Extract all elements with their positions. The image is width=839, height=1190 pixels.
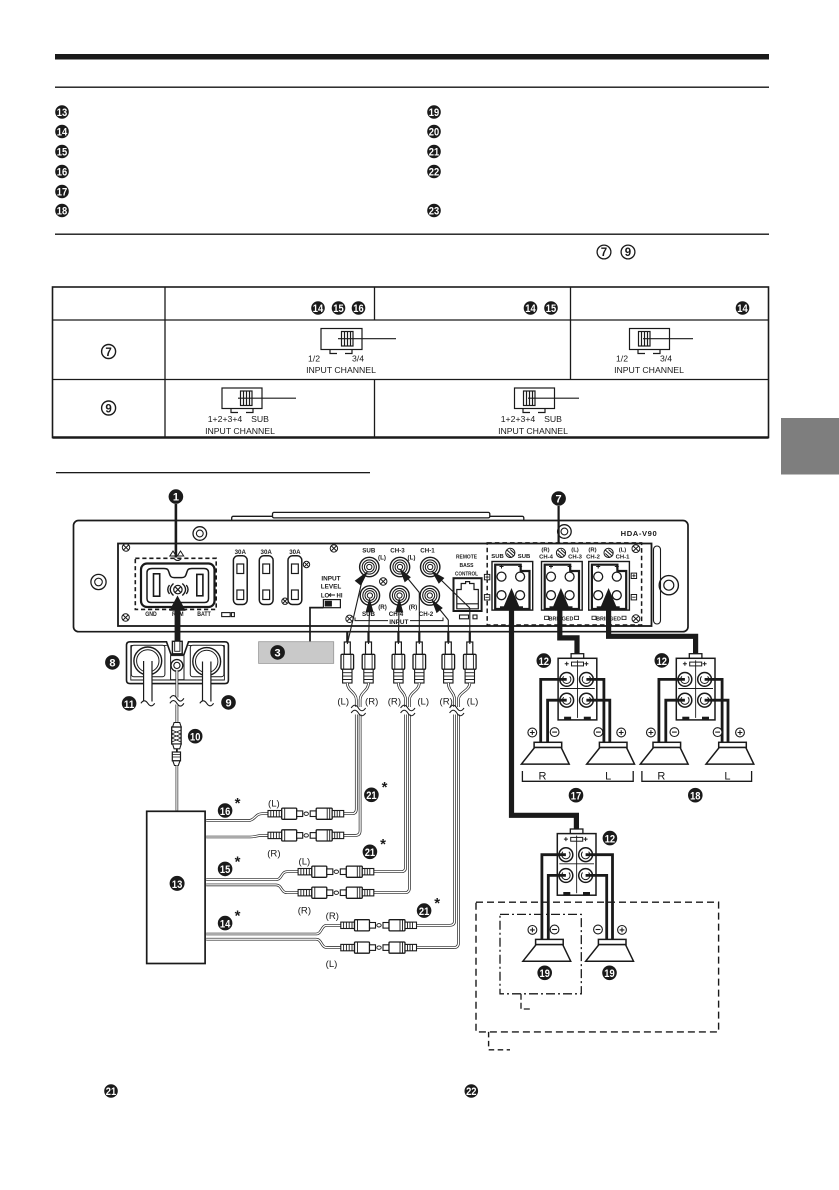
svg-text:INPUT CHANNEL: INPUT CHANNEL <box>498 426 568 436</box>
svg-text:14: 14 <box>525 303 535 315</box>
svg-text:(L): (L) <box>619 548 627 554</box>
power terminal block <box>141 564 215 608</box>
RCA plug below amp (L) ch3 <box>413 632 426 683</box>
RCA plug below amp (R) sub <box>362 632 375 683</box>
svg-text:9: 9 <box>225 697 231 709</box>
svg-text:SUB: SUB <box>544 414 562 424</box>
svg-text:(L): (L) <box>571 548 579 554</box>
table header circle 15 <box>332 301 346 315</box>
svg-text:REMOTE: REMOTE <box>456 555 477 561</box>
svg-text:(R): (R) <box>267 849 280 860</box>
front speaker wires <box>541 679 610 742</box>
svg-text:14: 14 <box>57 127 67 139</box>
thick cable CH-2/1 out <box>609 606 696 658</box>
RCA jack CH-1 <box>421 557 440 576</box>
svg-text:*: * <box>434 895 440 912</box>
dashed box corner screws <box>632 545 640 553</box>
fuse holder 10 <box>172 723 182 749</box>
sub system dashed box <box>476 902 719 1032</box>
label circle 18 <box>688 788 703 803</box>
RCA plug below amp (L) ch1 <box>464 632 477 683</box>
table header circle 16 <box>352 301 366 315</box>
svg-text:17: 17 <box>571 791 581 803</box>
svg-text:15: 15 <box>220 864 230 876</box>
svg-text:CH-3: CH-3 <box>568 555 582 561</box>
GND cable <box>141 661 155 706</box>
svg-text:(L): (L) <box>268 799 280 810</box>
svg-text:12: 12 <box>605 833 615 845</box>
svg-text:CH-1: CH-1 <box>616 555 630 561</box>
top thin rule <box>55 87 769 88</box>
top thick rule <box>55 54 769 60</box>
panel screw c <box>330 545 337 552</box>
list item circle 14 <box>55 125 69 139</box>
plus minus marks on dashed box <box>484 573 636 600</box>
svg-text:(R): (R) <box>388 697 401 708</box>
amplifier connector panel <box>118 544 652 627</box>
svg-text:L: L <box>605 771 611 783</box>
svg-text:*: * <box>235 795 241 812</box>
svg-text:16: 16 <box>353 303 363 315</box>
list item circle 21 <box>427 145 441 159</box>
BATT ring terminal <box>193 648 221 676</box>
power terminal inner outline <box>147 569 209 603</box>
svg-text:(R): (R) <box>365 697 378 708</box>
terminal block CH-2/CH-1 <box>589 562 630 611</box>
svg-text:LO: LO <box>321 593 330 599</box>
rear L polarity <box>713 728 722 737</box>
switch A row7 col2 (knob right) <box>321 329 396 354</box>
svg-text:30A: 30A <box>289 549 301 556</box>
RCA pair 15 L <box>298 866 374 877</box>
svg-text:18: 18 <box>57 206 67 218</box>
bundle 1 wires <box>343 700 356 814</box>
pointer arrow plug2 to SUB R jack <box>366 600 373 645</box>
svg-text:21: 21 <box>366 790 376 802</box>
label circle 19 right <box>602 966 617 981</box>
REM clamp wings <box>168 584 188 596</box>
svg-text:13: 13 <box>57 107 67 119</box>
sub L speaker <box>523 939 571 961</box>
svg-text:*: * <box>382 779 388 796</box>
svg-text:BATT: BATT <box>197 611 211 618</box>
RCA jack CH-3 <box>390 557 409 576</box>
label circle 22 bottom <box>465 1084 479 1098</box>
fuse 30A #2 <box>259 556 273 605</box>
terminal block CH-4/CH-3 <box>542 562 583 611</box>
svg-text:3: 3 <box>275 647 281 659</box>
svg-text:1/2: 1/2 <box>308 354 320 364</box>
svg-text:1+2+3+4: 1+2+3+4 <box>208 414 243 424</box>
front L polarity <box>594 728 603 737</box>
svg-text:HI: HI <box>337 593 343 599</box>
svg-text:15: 15 <box>333 303 343 315</box>
switch B row7 col4 (knob left) <box>630 329 694 354</box>
RCA plug below amp (L) sub <box>341 632 354 683</box>
REM wire to fuse <box>175 705 178 724</box>
svg-text:14: 14 <box>220 918 230 930</box>
settings table frame <box>53 287 769 438</box>
svg-text:15: 15 <box>57 147 67 159</box>
table row circled 7 <box>102 345 116 359</box>
svg-text:*: * <box>235 853 241 870</box>
label circle 3 <box>270 645 285 660</box>
REM wire upper <box>175 670 178 699</box>
label circle 21 bottom <box>104 1084 118 1098</box>
svg-text:(L): (L) <box>467 697 479 708</box>
sub cable pair merge <box>347 683 356 700</box>
svg-text:BASS: BASS <box>460 563 474 569</box>
svg-text:7: 7 <box>105 347 111 359</box>
svg-text:14: 14 <box>313 303 323 315</box>
head unit box 13 <box>147 811 205 963</box>
rear bracket <box>642 771 752 781</box>
pointer arrow plug1 to SUB L jack <box>347 572 367 644</box>
arrow into CH-2/1 block <box>600 588 617 609</box>
svg-text:*: * <box>380 836 386 853</box>
switch D row9 col3 (knob left) <box>515 388 580 413</box>
pointer arrow plug3 to CH-4 jack <box>396 600 403 645</box>
GND terminal pad <box>131 645 165 677</box>
svg-text:GND: GND <box>145 611 157 618</box>
svg-text:(R): (R) <box>541 548 549 554</box>
list item circle 18 <box>55 204 69 218</box>
svg-text:16: 16 <box>57 167 67 179</box>
panel right groove <box>654 546 661 624</box>
row 16 wires from head unit <box>206 814 268 821</box>
svg-text:(L): (L) <box>417 697 429 708</box>
rear R polarity <box>647 728 656 737</box>
table header circle 14c <box>736 301 750 315</box>
panel screw d <box>346 615 353 622</box>
svg-text:(L): (L) <box>408 555 416 562</box>
svg-text:12: 12 <box>657 656 667 668</box>
pointer arrow plug5 to CH-2 jack <box>432 601 448 645</box>
sub R polarity <box>594 925 603 934</box>
svg-text:14: 14 <box>737 303 747 315</box>
dashed stub <box>489 1032 510 1050</box>
label circle 9 <box>221 695 236 710</box>
svg-text:9: 9 <box>105 403 111 415</box>
INPUT LEVEL switch <box>323 600 340 608</box>
amplifier top lid <box>232 512 524 523</box>
fuse 30A #3 <box>288 556 302 605</box>
svg-text:8: 8 <box>109 657 115 669</box>
label circle 1 <box>169 489 184 504</box>
BRIDGED label b2 <box>545 616 579 622</box>
switch C row9 col2 (knob right) <box>222 388 296 413</box>
svg-text:18: 18 <box>690 791 700 803</box>
body screw top-left <box>193 527 207 541</box>
svg-text:*: * <box>235 908 241 925</box>
RCA jack CH-4 <box>390 586 409 605</box>
thick cable CH-4/3 out <box>560 606 577 658</box>
RCA pair 14 R <box>341 920 417 931</box>
label circle 12 front <box>537 653 552 668</box>
svg-text:1/2: 1/2 <box>616 354 628 364</box>
leader to gray box 3 <box>310 608 323 642</box>
svg-text:(R): (R) <box>409 604 418 611</box>
label circle 17 <box>569 788 584 803</box>
svg-text:22: 22 <box>466 1086 476 1098</box>
label circle 15 <box>218 862 233 877</box>
row 14 wires from head unit <box>206 925 341 934</box>
front R speaker <box>521 742 569 764</box>
svg-text:SUB: SUB <box>491 554 503 560</box>
list item circle 16 <box>55 165 69 179</box>
panel screw b <box>122 614 129 621</box>
body screw right-mid <box>659 576 678 595</box>
svg-text:CH-2: CH-2 <box>419 611 434 618</box>
svg-text:SUB: SUB <box>362 548 376 555</box>
rear speaker wires <box>659 679 728 742</box>
label circle 19 left <box>537 966 552 981</box>
ch34 cable pair merge <box>398 683 405 700</box>
label circle 12 sub <box>603 831 618 846</box>
RCA plug below amp (R) ch2 <box>442 632 455 683</box>
table header circle 15b <box>544 301 558 315</box>
svg-text:1: 1 <box>173 492 179 504</box>
svg-text:(R): (R) <box>588 548 596 554</box>
label circle 21 row3 <box>417 903 432 918</box>
fuse lower connector <box>172 749 180 766</box>
svg-text:INPUT CHANNEL: INPUT CHANNEL <box>614 365 684 375</box>
svg-text:19: 19 <box>604 968 614 980</box>
page edge gray tab <box>781 418 839 475</box>
front R polarity <box>528 728 537 737</box>
list item circle 20 <box>427 125 441 139</box>
rear R speaker <box>640 742 688 764</box>
svg-text:11: 11 <box>124 699 134 711</box>
thick cable SUB out <box>512 606 577 832</box>
svg-text:30A: 30A <box>235 549 247 556</box>
svg-text:CONTROL: CONTROL <box>455 572 478 578</box>
svg-text:(R): (R) <box>326 911 339 922</box>
svg-text:15: 15 <box>546 303 556 315</box>
svg-text:9: 9 <box>625 247 631 259</box>
svg-text:R: R <box>539 771 547 783</box>
RCA jack SUB R <box>360 586 379 605</box>
GND ring terminal <box>134 647 162 675</box>
sub speaker wires <box>542 855 613 940</box>
svg-text:19: 19 <box>429 107 439 119</box>
svg-text:CH-3: CH-3 <box>390 548 405 555</box>
wire break symbol <box>170 696 184 707</box>
label circle 12 rear <box>655 653 670 668</box>
list item circle 15 <box>55 145 69 159</box>
panel screw g <box>380 578 387 585</box>
BATT slot <box>197 574 203 595</box>
svg-text:(L): (L) <box>299 857 311 868</box>
svg-text:21: 21 <box>429 147 439 159</box>
section heading underline <box>56 472 370 473</box>
bundle 2 wires <box>374 700 406 872</box>
RCA jack CH-2 <box>420 586 439 605</box>
svg-text:INPUT: INPUT <box>321 576 340 583</box>
svg-text:3/4: 3/4 <box>660 354 672 364</box>
svg-text:21: 21 <box>365 847 375 859</box>
sub enclosure dash-dot box <box>500 914 581 993</box>
remote bass jack <box>454 578 482 611</box>
svg-text:SUB: SUB <box>251 414 269 424</box>
svg-text:16: 16 <box>220 806 230 818</box>
svg-text:20: 20 <box>429 127 439 139</box>
front speaker connector 12 <box>558 654 597 720</box>
svg-text:3/4: 3/4 <box>352 354 364 364</box>
svg-text:CH-2: CH-2 <box>586 555 600 561</box>
sub speaker connector 12 <box>557 829 596 895</box>
label 1 leader <box>175 504 178 558</box>
pointer arrow plug4 to CH-3 jack <box>401 570 420 644</box>
svg-text:L: L <box>724 771 730 783</box>
svg-text:LEVEL: LEVEL <box>321 583 342 590</box>
svg-text:13: 13 <box>172 879 182 891</box>
REM spade tab <box>172 641 182 654</box>
svg-text:21: 21 <box>419 906 429 918</box>
svg-text:7: 7 <box>601 247 607 259</box>
svg-text:22: 22 <box>429 167 439 179</box>
svg-text:(R): (R) <box>298 906 311 917</box>
front bracket <box>522 771 633 781</box>
bundle break symbols <box>351 705 366 716</box>
svg-text:SUB: SUB <box>518 554 530 560</box>
label circle 11 <box>122 696 137 711</box>
table header circle 14 <box>311 301 325 315</box>
svg-text:(L): (L) <box>337 697 349 708</box>
panel screw e <box>303 561 309 567</box>
svg-text:HDA-V90: HDA-V90 <box>621 529 658 538</box>
label circle 21 row2 <box>363 845 378 860</box>
REM ring terminal <box>171 660 183 672</box>
list item circle 22 <box>427 165 441 179</box>
RCA pair 16 R <box>268 830 344 841</box>
label circle 16 <box>218 803 233 818</box>
pointer arrow plug6 to CH-1 jack <box>433 572 470 644</box>
BATT terminal pad <box>190 645 224 677</box>
front L speaker <box>587 742 635 764</box>
list item circle 17 <box>55 185 69 199</box>
dash-dot stub <box>521 994 531 1009</box>
arrow into CH-4/3 block <box>552 588 569 609</box>
svg-text:12: 12 <box>539 656 549 668</box>
BRIDGED label b3 <box>592 616 626 622</box>
REM black arrow <box>169 596 185 646</box>
ring terminal plate <box>127 642 229 684</box>
table row circled 9 <box>102 401 116 415</box>
gray box 3 <box>259 642 334 664</box>
svg-text:(L): (L) <box>326 959 338 970</box>
rear speaker connector 12 <box>676 654 715 720</box>
table header circle 14b <box>524 301 538 315</box>
list item circle 13 <box>55 105 69 119</box>
arrow into SUB block <box>503 588 520 609</box>
RCA plug below amp (R) ch4 <box>392 632 405 683</box>
GND slot <box>154 574 160 596</box>
remote jack slot <box>460 615 478 619</box>
body screw top-right <box>558 525 572 539</box>
RCA pair 16 L <box>268 808 344 819</box>
row 15 wires from head unit <box>206 872 298 880</box>
label circle 14 <box>218 916 233 931</box>
list item circle 19 <box>427 105 441 119</box>
panel screw f <box>282 598 288 604</box>
RCA pair 15 R <box>298 887 374 898</box>
BATT cable <box>200 662 214 706</box>
power terminal dashed box <box>135 558 216 609</box>
svg-text:R: R <box>657 771 665 783</box>
bundle 3 wires <box>417 700 455 925</box>
svg-text:INPUT CHANNEL: INPUT CHANNEL <box>205 426 275 436</box>
wire to head unit <box>176 766 179 811</box>
mid thin rule <box>55 234 769 235</box>
ch12 cable pair merge <box>448 683 454 700</box>
svg-text:21: 21 <box>106 1086 116 1098</box>
svg-text:19: 19 <box>540 968 550 980</box>
svg-text:23: 23 <box>429 206 439 218</box>
circled 9 reference <box>621 245 635 259</box>
body screw left-mid <box>91 574 106 589</box>
sub L polarity <box>528 926 537 935</box>
svg-text:17: 17 <box>57 187 67 199</box>
list item circle 23 <box>427 204 441 218</box>
RCA pair 14 L <box>341 942 417 953</box>
sub R speaker <box>586 939 634 961</box>
speaker output dashed box <box>487 543 641 625</box>
terminal block SUB <box>492 562 533 611</box>
RCA jack SUB L <box>360 557 379 576</box>
label circle 10 <box>188 729 203 744</box>
circled 7 reference <box>597 245 611 259</box>
svg-text:30A: 30A <box>261 549 273 556</box>
svg-text:CH-4: CH-4 <box>539 555 553 561</box>
label circle 21 row1 <box>364 788 379 803</box>
panel screw a <box>122 544 129 551</box>
svg-text:1+2+3+4: 1+2+3+4 <box>501 414 536 424</box>
svg-text:(L): (L) <box>378 555 386 562</box>
label circle 13 <box>170 876 185 891</box>
warning mark <box>170 551 184 556</box>
fuse 30A #1 <box>233 556 247 605</box>
label circle 8 <box>105 655 120 670</box>
amplifier body <box>74 521 689 632</box>
label circle 7 over amp <box>557 506 559 543</box>
REM center screw <box>174 585 182 593</box>
svg-text:INPUT CHANNEL: INPUT CHANNEL <box>306 365 376 375</box>
rear L speaker <box>706 742 754 764</box>
leader arrowhead arc <box>174 559 181 561</box>
svg-text:10: 10 <box>190 732 200 744</box>
svg-text:(R): (R) <box>378 604 387 611</box>
REM terminal pad <box>171 656 184 680</box>
svg-text:CH-1: CH-1 <box>420 548 435 555</box>
svg-text:7: 7 <box>556 494 562 506</box>
vent slot <box>222 613 235 617</box>
